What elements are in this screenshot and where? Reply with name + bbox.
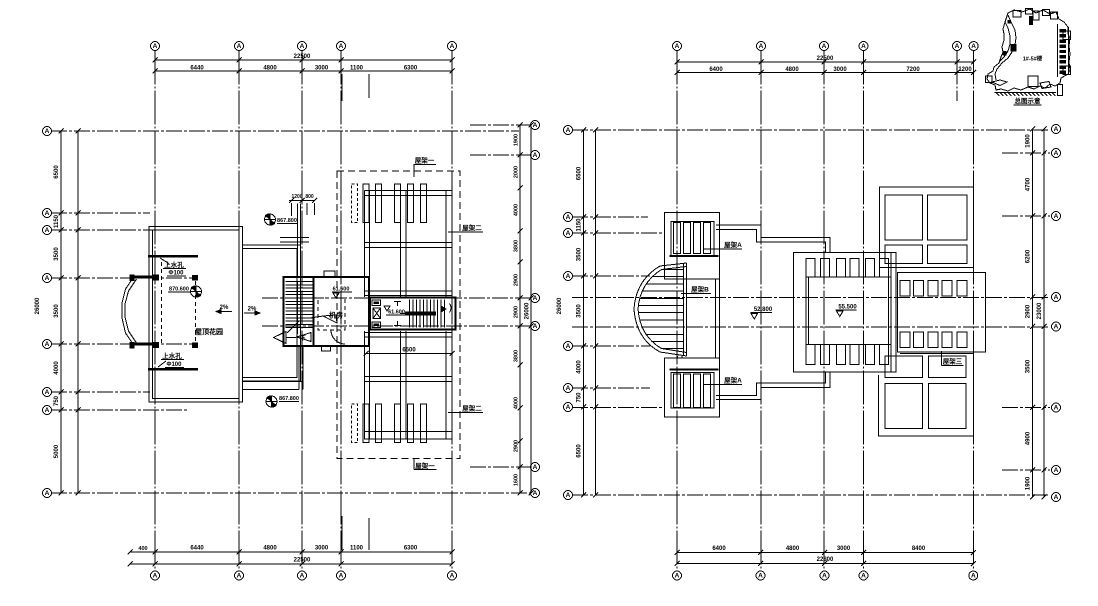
svg-text:1200: 1200 <box>291 194 302 200</box>
node left-plan top axis circle 5 <box>448 42 457 51</box>
wire right-plan grid vertical 1 <box>676 51 678 571</box>
svg-text:1100: 1100 <box>350 546 364 552</box>
svg-text:3500: 3500 <box>577 247 583 261</box>
wire dim tick <box>581 386 586 391</box>
node left-plan right axis circle y125 <box>531 121 540 130</box>
wire dim tick <box>1030 127 1035 132</box>
wire dim tick <box>581 493 586 498</box>
left building inner wall <box>153 230 240 399</box>
key map top building 2 <box>1026 9 1033 15</box>
svg-text:3000: 3000 <box>315 546 329 552</box>
key map inner road <box>995 15 1016 80</box>
stair down label <box>297 333 311 342</box>
wire dim tick <box>450 58 455 63</box>
svg-text:1900: 1900 <box>1026 134 1032 148</box>
wire dim tick <box>1030 495 1035 500</box>
wire left-plan grid row y125 <box>470 124 531 126</box>
wire left-plan grid row y131 <box>51 130 519 132</box>
key map top building 5 <box>1051 12 1058 19</box>
svg-text:750: 750 <box>54 395 60 406</box>
svg-text:A: A <box>45 275 50 282</box>
machine room door arc <box>331 330 345 344</box>
svg-text:上水孔: 上水孔 <box>162 351 182 360</box>
wire dim tick <box>518 406 523 411</box>
node left-plan right axis circle y467 <box>531 463 540 472</box>
hall inner right wall <box>888 277 890 345</box>
wire right-plan left dim line 2 <box>595 130 597 495</box>
bay window outer arc <box>122 277 134 346</box>
wire dim tick <box>581 231 586 236</box>
roof top frame vertical pair x446 <box>445 191 447 298</box>
svg-text:A: A <box>675 43 680 50</box>
wire dim tick <box>529 324 534 329</box>
wire right-plan grid row y233 <box>572 232 662 234</box>
svg-text:屋架一: 屋架一 <box>415 461 435 470</box>
svg-text:1900: 1900 <box>514 134 520 146</box>
wire right-plan grid row y217 <box>572 216 648 218</box>
wire dim tick <box>237 550 242 555</box>
svg-text:1100: 1100 <box>350 66 364 72</box>
hall inner left wall <box>805 277 807 345</box>
stairwell outer wall <box>284 277 370 346</box>
wire right-plan grid row y470 <box>1002 469 1050 471</box>
wire dim tick <box>971 60 976 65</box>
wire left-plan grid vertical 2 <box>238 51 240 571</box>
bottom-right block sq1 <box>885 356 922 377</box>
node right-plan left axis circle y495 <box>564 491 573 500</box>
svg-text:3500: 3500 <box>577 304 583 318</box>
stairwell top bump <box>324 271 335 277</box>
node left-plan left axis circle y213 <box>43 209 52 218</box>
node right-plan left axis circle y276 <box>564 272 573 281</box>
node right-plan left axis circle y233 <box>564 229 573 238</box>
key map bottom-left square <box>986 76 993 83</box>
node left-plan top axis circle 2 <box>235 42 244 51</box>
svg-text:1200: 1200 <box>958 67 972 73</box>
wire right-plan grid row y276 <box>572 275 650 277</box>
node left-plan bottom axis circle x452 <box>448 571 457 580</box>
key map blob 3 <box>1008 20 1012 24</box>
wire left-plan grid row y326 <box>262 325 531 327</box>
svg-text:4800: 4800 <box>785 67 799 73</box>
pipe bar upper <box>148 255 198 258</box>
wire dim tick <box>675 550 680 555</box>
wire dim tick <box>237 58 242 63</box>
node right-plan left axis circle y407 <box>564 403 573 412</box>
top-right block outer <box>880 187 974 268</box>
node left-plan left axis circle y410 <box>43 406 52 415</box>
stair zone wall <box>313 278 315 345</box>
wire left-plan bottom dim line 1 <box>130 551 452 553</box>
svg-text:A: A <box>1054 467 1059 474</box>
svg-text:26000: 26000 <box>525 302 531 319</box>
roof bottom frame vertical pair x364.5 <box>364 331 366 440</box>
svg-text:A: A <box>566 404 571 411</box>
svg-text:6300: 6300 <box>404 546 418 552</box>
key map bottom tail <box>1058 85 1063 96</box>
wire left-plan hanging tick a <box>341 74 343 101</box>
corridor tread arrow <box>400 313 406 315</box>
svg-text:4800: 4800 <box>263 546 277 552</box>
svg-text:22500: 22500 <box>294 54 311 60</box>
svg-text:屋架二: 屋架二 <box>462 404 482 413</box>
wire dim tick <box>822 550 827 555</box>
level symbol 867.800 bottom <box>266 396 277 407</box>
wire dim tick <box>518 363 523 368</box>
wire dim tick <box>518 186 523 191</box>
svg-text:A: A <box>45 341 50 348</box>
wire dim tick <box>518 465 523 470</box>
svg-text:2900: 2900 <box>514 306 520 318</box>
roof-B right edge <box>683 263 685 356</box>
svg-text:A: A <box>1054 294 1059 301</box>
wire dim tick <box>518 260 523 265</box>
corridor tee marks <box>394 301 401 303</box>
wire dim tick <box>59 276 64 281</box>
roof 6500 dim <box>366 353 452 355</box>
wire left-plan grid row y392 <box>51 391 150 393</box>
node left-plan left axis circle y392 <box>43 388 52 397</box>
hall outer rect <box>794 253 897 373</box>
wire dim tick <box>581 344 586 349</box>
svg-text:6500: 6500 <box>577 444 583 458</box>
svg-text:屋架三: 屋架三 <box>943 357 963 366</box>
svg-text:23000: 23000 <box>1037 302 1043 319</box>
key map right band block 5 <box>1060 50 1067 53</box>
wire left-plan top dim line 1 <box>155 59 452 61</box>
svg-text:A: A <box>566 343 571 350</box>
key map base hatch <box>996 92 999 96</box>
svg-text:屋架A: 屋架A <box>724 376 742 385</box>
wire dim tick <box>529 491 534 496</box>
wire left-plan grid row y493 <box>51 492 531 494</box>
bay inner dashed line <box>161 262 163 346</box>
wire left-plan grid row y213 <box>51 212 150 214</box>
key map right band block 2 <box>1060 34 1067 37</box>
svg-text:A: A <box>45 490 50 497</box>
svg-text:屋顶花园: 屋顶花园 <box>195 327 223 336</box>
node right-plan top axis circle x761 <box>757 42 766 51</box>
wire dim tick <box>1030 214 1035 219</box>
wire left-plan grid vertical 1 <box>154 51 156 571</box>
wire dim tick <box>675 60 680 65</box>
wire dim tick <box>128 550 133 555</box>
svg-text:A: A <box>450 573 455 580</box>
wire right-plan grid row y407.5 <box>572 407 662 409</box>
svg-text:A: A <box>566 214 571 221</box>
shaft walls <box>297 204 299 278</box>
wire left-plan hanging tick b <box>368 74 370 98</box>
top-right block sq1 <box>885 195 922 240</box>
svg-text:A: A <box>566 492 571 499</box>
wire dim tick <box>59 342 64 347</box>
wire dim tick <box>518 229 523 234</box>
svg-text:A: A <box>675 573 680 580</box>
stair break line <box>287 321 299 333</box>
svg-text:1600: 1600 <box>514 474 520 486</box>
svg-text:A: A <box>1054 324 1059 331</box>
roof dashed boundary <box>337 171 460 459</box>
node right-plan right axis circle y407.5 <box>1052 403 1061 412</box>
wire dim tick <box>59 228 64 233</box>
bay window bottom cap <box>131 343 158 346</box>
wire right-plan grid vertical 4 <box>863 51 865 571</box>
node right-plan right axis circle y216 <box>1052 212 1061 221</box>
svg-text:750: 750 <box>577 392 583 403</box>
wire dim tick <box>518 491 523 496</box>
hall left wall pair <box>715 279 717 358</box>
wire dim tick <box>339 58 344 63</box>
wire dim tick <box>529 123 534 128</box>
wire right-plan left dim line 1 <box>583 130 585 495</box>
key map top mark <box>1029 16 1033 25</box>
wire left-plan grid row y278 <box>51 277 198 279</box>
wire left-plan bottom hanging tick a <box>341 516 343 550</box>
wire right-plan grid row y495 <box>572 494 1050 496</box>
outline bottom outer <box>716 372 830 400</box>
svg-text:4000: 4000 <box>54 361 60 375</box>
svg-text:屋架B: 屋架B <box>691 285 709 294</box>
corridor bottom squares <box>900 332 910 348</box>
stairwell bottom drop walls <box>298 346 300 390</box>
wire dim tick <box>759 60 764 65</box>
wire left-plan grid row y230 <box>51 229 187 231</box>
svg-text:400: 400 <box>138 546 147 552</box>
hall bottom squares <box>806 345 815 365</box>
svg-text:1150: 1150 <box>54 214 60 228</box>
svg-text:A: A <box>971 43 976 50</box>
svg-text:4000: 4000 <box>577 360 583 374</box>
bottom-right block sq4 <box>929 384 967 429</box>
stair treads <box>286 281 313 283</box>
roof top hatch bars <box>352 184 358 223</box>
svg-text:800: 800 <box>305 194 314 200</box>
svg-text:屋架二: 屋架二 <box>462 223 482 232</box>
svg-text:A: A <box>300 43 305 50</box>
svg-text:A: A <box>153 43 158 50</box>
svg-text:6500: 6500 <box>402 348 416 354</box>
wire right-plan bottom dim line 2 <box>677 563 974 565</box>
node right-plan right axis circle y153 <box>1052 149 1061 158</box>
node right-plan bottom axis circle x677 <box>673 571 682 580</box>
roof top frame horizontal pair y291 <box>365 290 453 292</box>
wire dim tick <box>581 274 586 279</box>
node right-plan top axis circle x973.6 <box>969 42 978 51</box>
svg-text:A: A <box>45 407 50 414</box>
wire right-plan grid row y130 <box>572 129 1050 131</box>
wire dim tick <box>59 491 64 496</box>
svg-text:2000: 2000 <box>514 166 520 178</box>
roof-B outer arc <box>634 263 687 356</box>
wire dim tick <box>581 405 586 410</box>
roof top frame vertical pair x400.5 <box>400 191 402 298</box>
svg-text:2900: 2900 <box>514 274 520 286</box>
svg-text:6400: 6400 <box>712 546 726 552</box>
shaft dim drops <box>291 203 293 216</box>
machine room dashed duct <box>318 298 345 330</box>
svg-text:3500: 3500 <box>54 304 60 318</box>
wire dim tick <box>518 153 523 158</box>
svg-text:6440: 6440 <box>190 546 204 552</box>
wire left-plan bottom hanging tick b <box>368 518 370 550</box>
wire dim tick <box>450 550 455 555</box>
node left-plan right axis circle y326 <box>531 322 540 331</box>
key map right band block 3 <box>1060 39 1067 42</box>
svg-text:3000: 3000 <box>315 66 329 72</box>
roof bottom frame horizontal pair y332.5 <box>365 332 453 334</box>
svg-text:A: A <box>758 573 763 580</box>
roof-A top box outer <box>665 213 720 280</box>
wire left-plan grid row y344 <box>51 343 198 345</box>
svg-text:A: A <box>237 43 242 50</box>
bay column blocks <box>153 275 159 281</box>
node right-plan top axis circle x824 <box>820 42 829 51</box>
wire dim tick <box>300 58 305 63</box>
key map base line <box>995 92 1057 94</box>
wire dim tick <box>59 211 64 216</box>
key map blob 1 <box>1011 44 1017 52</box>
key map bottom rect <box>1028 76 1038 87</box>
svg-text:总图示意: 总图示意 <box>1015 96 1042 105</box>
right corridor rect <box>898 273 986 353</box>
hall inner top line <box>806 276 891 278</box>
svg-text:6300: 6300 <box>404 66 418 72</box>
svg-text:3800: 3800 <box>514 240 520 252</box>
node right-plan right axis circle y497 <box>1052 493 1061 502</box>
svg-text:6200: 6200 <box>1026 249 1032 263</box>
svg-text:8400: 8400 <box>912 546 926 552</box>
svg-text:A: A <box>566 273 571 280</box>
svg-text:A: A <box>566 230 571 237</box>
svg-text:A: A <box>861 43 866 50</box>
roof-A top bar frame <box>671 222 714 256</box>
svg-text:A: A <box>45 128 50 135</box>
key map right band outer <box>1057 24 1059 77</box>
porch bottom walls <box>242 381 303 383</box>
svg-text:3000: 3000 <box>833 67 847 73</box>
svg-text:A: A <box>1054 405 1059 412</box>
key map road edge 2 <box>999 22 1010 62</box>
svg-text:22500: 22500 <box>817 56 834 62</box>
svg-text:6400: 6400 <box>709 67 723 73</box>
node left-plan left axis circle y344 <box>43 340 52 349</box>
node right-plan top axis circle x863.5 <box>859 42 868 51</box>
wire right-plan grid row y388 <box>572 387 650 389</box>
level symbol 867.800 <box>265 214 276 225</box>
svg-text:A: A <box>339 43 344 50</box>
wire dim tick <box>758 550 763 555</box>
entrance arrow <box>274 332 287 344</box>
wire right-plan right dim line 2 <box>1043 129 1045 497</box>
svg-text:A: A <box>822 43 827 50</box>
node left-plan left axis circle y230 <box>43 226 52 235</box>
outline top inner <box>716 230 826 253</box>
svg-text:A: A <box>566 385 571 392</box>
wire dim tick <box>518 123 523 128</box>
roof bottom frame horizontal pair y376.5 <box>365 376 453 378</box>
node right-plan bottom axis circle x824.5 <box>820 571 829 580</box>
svg-text:4000: 4000 <box>514 397 520 409</box>
wire dim tick <box>1030 151 1035 156</box>
svg-text:1150: 1150 <box>577 218 583 232</box>
key map right band block 1 <box>1060 29 1067 32</box>
wire left-plan bottom dim line 2 <box>130 563 452 565</box>
svg-text:A: A <box>533 464 538 471</box>
wire dim tick <box>861 60 866 65</box>
bottom-right block outer <box>879 354 974 436</box>
svg-text:4700: 4700 <box>1026 177 1032 191</box>
svg-text:22800: 22800 <box>817 557 834 563</box>
roof-A top bars <box>674 223 681 254</box>
svg-text:5000: 5000 <box>54 444 60 458</box>
top-right block sq2 <box>927 195 967 240</box>
corridor stair outer wall <box>370 298 456 330</box>
key map top building 1 <box>1013 11 1021 18</box>
svg-text:A: A <box>45 210 50 217</box>
key map right band block 4 <box>1060 45 1067 48</box>
wire dim tick <box>59 390 64 395</box>
wire right-plan bottom dim line 1 <box>677 552 974 554</box>
bottom-right block sq3 <box>885 384 922 429</box>
wire right-plan grid row y153 <box>1002 152 1050 154</box>
vestibule top walls <box>280 237 309 239</box>
left building right extension outer <box>243 245 301 381</box>
shaft dim line <box>289 200 315 202</box>
roof bottom hatch bars <box>352 404 358 443</box>
wire dim tick <box>59 129 64 134</box>
wire right-plan grid vertical 6 <box>973 51 975 571</box>
level symbol 870.600 <box>191 286 202 297</box>
svg-text:26000: 26000 <box>35 297 41 314</box>
wire right-plan grid row y216 <box>1002 215 1050 217</box>
svg-text:4800: 4800 <box>263 66 277 72</box>
svg-text:A: A <box>1054 213 1059 220</box>
node right-plan right axis circle y326.5 <box>1052 322 1061 331</box>
wire dim tick <box>1030 324 1035 329</box>
corridor stair treads <box>409 300 411 328</box>
wire dim tick <box>153 550 158 555</box>
key map site outline <box>987 9 1070 91</box>
wire right-plan grid vertical 2 <box>760 51 762 571</box>
node left-plan left axis circle y131 <box>43 127 52 136</box>
roof-A bottom bar frame <box>671 373 714 409</box>
svg-text:屋架一: 屋架一 <box>415 156 435 165</box>
node right-plan left axis circle y130 <box>564 126 573 135</box>
svg-text:3500: 3500 <box>54 247 60 261</box>
wire dim tick <box>518 296 523 301</box>
drum-to-box connector <box>677 356 679 358</box>
wire left-plan grid row y410 <box>51 409 187 411</box>
svg-text:A: A <box>153 573 158 580</box>
svg-text:A: A <box>822 573 827 580</box>
wire left-plan top dim line 2 <box>155 70 452 72</box>
wire left-plan grid vertical 5 <box>451 51 453 571</box>
key map bottom-left wing <box>992 80 1007 86</box>
pipe bar lower <box>148 368 198 371</box>
node left-plan left axis circle y278 <box>43 274 52 283</box>
wire dim tick <box>59 408 64 413</box>
bay window top cap <box>131 276 158 279</box>
key map right band block 8 <box>1060 65 1067 68</box>
node left-plan top axis circle 3 <box>298 42 307 51</box>
node left-plan right axis circle y155 <box>531 151 540 160</box>
left building right extension inner <box>243 249 298 378</box>
wire left-plan grid vertical 3 <box>301 51 303 571</box>
svg-text:4800: 4800 <box>786 546 800 552</box>
svg-text:A: A <box>300 573 305 580</box>
node right-plan left axis circle y388 <box>564 384 573 393</box>
roof bottom frame vertical pair x446 <box>445 331 447 440</box>
